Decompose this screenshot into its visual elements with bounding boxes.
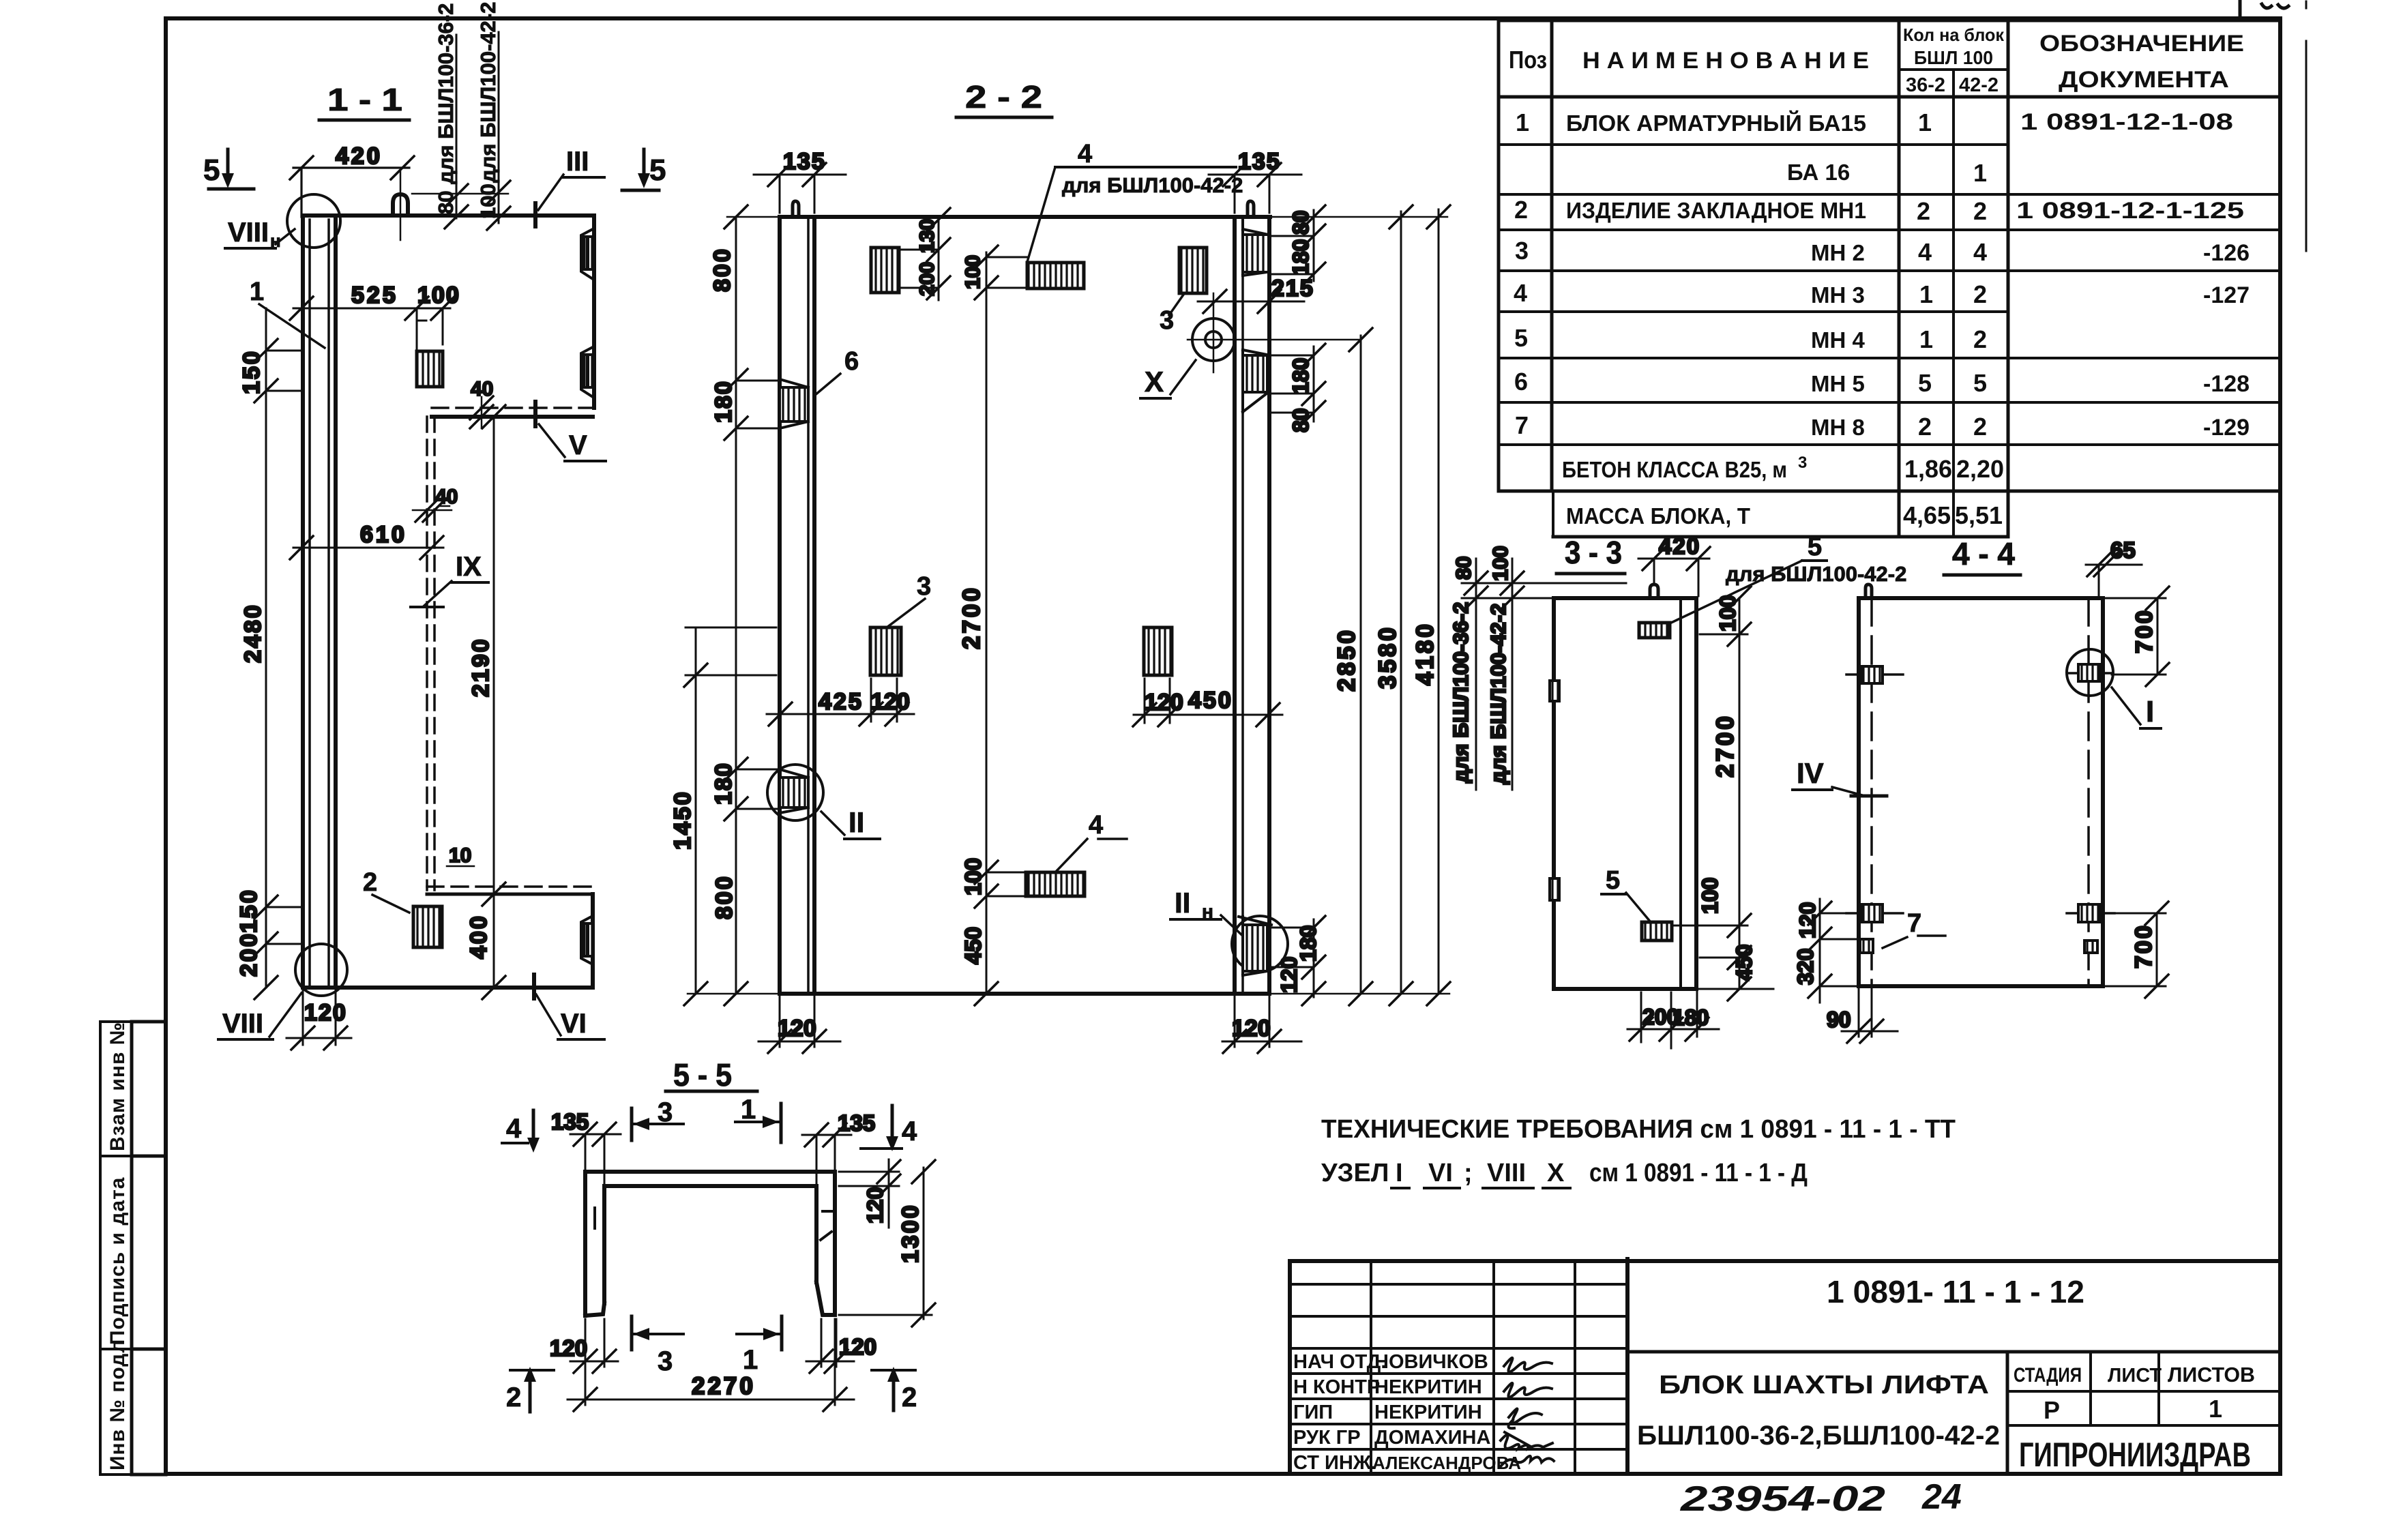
svg-text:Поз: Поз [1509, 46, 1547, 74]
svg-text:135: 135 [783, 149, 826, 175]
svg-text:МН 5: МН 5 [1811, 371, 1865, 396]
svg-text:МН 4: МН 4 [1811, 327, 1865, 353]
svg-text:1: 1 [1918, 108, 1932, 136]
rotated dim line 100 dlya BShL100-42-2 [476, 2, 510, 230]
svg-text:I: I [1396, 1159, 1403, 1187]
cut marker 4 left [502, 1110, 540, 1153]
svg-text:Подпись и дата: Подпись и дата [106, 1177, 129, 1345]
svg-text:80: 80 [434, 191, 458, 214]
svg-text:МН 2: МН 2 [1811, 240, 1865, 265]
label 3 top right [1160, 295, 1183, 335]
svg-text:1 0891- 11 - 1 - 12: 1 0891- 11 - 1 - 12 [1827, 1274, 2084, 1309]
svg-text:1: 1 [2209, 1395, 2222, 1423]
label 4 with note [1027, 140, 1243, 262]
dim 120 450 right [1133, 679, 1282, 726]
svg-text:2: 2 [363, 868, 377, 897]
svg-text:3: 3 [658, 1346, 673, 1376]
clip left tiny [1860, 939, 1873, 953]
svg-text:5: 5 [1514, 324, 1528, 352]
dim 120 bottom 1-1 [286, 990, 351, 1050]
dim 180 120 bottom right [1269, 916, 1325, 1005]
svg-text:IV: IV [1797, 757, 1824, 789]
dim 120 320 left [1793, 899, 1860, 1003]
svg-text:для БШЛ100-36-2: для БШЛ100-36-2 [434, 3, 458, 184]
cut marker 5 right [622, 149, 666, 190]
svg-text:100: 100 [1698, 878, 1722, 914]
label 2 with leader [363, 868, 409, 913]
label 7 [1883, 909, 1945, 948]
svg-text:1300: 1300 [898, 1203, 924, 1263]
svg-text:1: 1 [250, 278, 264, 306]
label 5 top with note [1670, 533, 1906, 623]
dim 10 at bottom step [447, 844, 474, 867]
svg-text:120: 120 [778, 1016, 816, 1041]
svg-text:610: 610 [360, 522, 407, 548]
svg-text:-128: -128 [2203, 371, 2250, 397]
svg-text:-129: -129 [2203, 415, 2250, 441]
svg-text:1: 1 [1973, 159, 1987, 187]
dim 135 right [1209, 149, 1301, 213]
svg-text:120: 120 [1795, 902, 1820, 938]
svg-text:5: 5 [1808, 533, 1822, 561]
svg-text:НЕКРИТИН: НЕКРИТИН [1374, 1376, 1482, 1398]
hatched block mid-right [1144, 627, 1172, 675]
svg-text:425: 425 [819, 689, 864, 715]
svg-text:I: I [2146, 695, 2154, 728]
svg-text:УЗЕЛ: УЗЕЛ [1321, 1159, 1389, 1187]
svg-text:5 - 5: 5 - 5 [673, 1057, 732, 1093]
svg-text:2: 2 [1973, 280, 1987, 308]
label VIII-n [225, 218, 295, 251]
svg-text:III: III [566, 147, 589, 177]
detail circle X with hole [1188, 293, 1361, 372]
svg-text:525: 525 [351, 282, 398, 308]
svg-text:ЛИСТОВ: ЛИСТОВ [2168, 1363, 2255, 1387]
svg-text:420: 420 [336, 143, 383, 169]
label II [821, 806, 880, 839]
bottom dims 200 180 [1627, 990, 1719, 1048]
svg-text:II: II [1175, 887, 1190, 919]
svg-text:ЛИСТ: ЛИСТ [2108, 1365, 2162, 1387]
hidden dashed edges [426, 417, 428, 890]
svg-text:1: 1 [1919, 325, 1933, 353]
channel recess bottom flange [581, 916, 593, 964]
dim 65 [2086, 537, 2142, 598]
dim 135 left [754, 149, 846, 213]
svg-text:4: 4 [1089, 811, 1103, 840]
svg-text:5,51: 5,51 [1955, 501, 2003, 529]
svg-text:2700: 2700 [1712, 713, 1739, 778]
svg-text:БЕТОН КЛАССА В25, м: БЕТОН КЛАССА В25, м [1562, 457, 1787, 482]
signature table rows [1290, 1284, 1627, 1449]
hatched recess bottom right [1239, 917, 1271, 975]
detail circle II-n [1232, 916, 1288, 972]
outer dim 1450 [670, 627, 776, 1005]
svg-text:150: 150 [239, 349, 265, 394]
dim 120 bottom left 2-2 [758, 996, 840, 1053]
label 4 bottom [1056, 811, 1127, 872]
svg-text:36-2: 36-2 [1906, 74, 1945, 96]
label II-n [1170, 887, 1245, 938]
table row lines [1499, 19, 2280, 23]
svg-text:2: 2 [1973, 413, 1987, 441]
svg-text:3: 3 [658, 1097, 673, 1127]
svg-text:3: 3 [917, 572, 931, 601]
hatched block 3b top right [1179, 248, 1207, 293]
hidden center lines [1870, 598, 1873, 986]
dim 700 top right [2105, 587, 2169, 686]
signature table columns [1371, 1261, 1575, 1474]
lifting pin left 2-2 [793, 201, 799, 217]
svg-text:2: 2 [1918, 413, 1932, 441]
svg-text:2: 2 [1973, 325, 1987, 353]
svg-text:4: 4 [902, 1116, 917, 1146]
svg-text:320: 320 [1793, 949, 1818, 985]
dim 525 [290, 282, 450, 320]
dim 120 bottom right 2-2 [1222, 996, 1301, 1053]
leg marks [595, 1208, 834, 1240]
svg-text:ГИП: ГИП [1293, 1402, 1333, 1423]
svg-text:120: 120 [871, 689, 910, 715]
svg-text:СТ ИНЖ.: СТ ИНЖ. [1293, 1452, 1376, 1474]
svg-text:7: 7 [1907, 909, 1921, 938]
svg-text:200: 200 [916, 262, 939, 296]
svg-text:МН 3: МН 3 [1811, 282, 1865, 308]
hatched block top 3-3 [1639, 623, 1670, 638]
dim 180 80 mid right [1269, 344, 1325, 432]
svg-text:5: 5 [1606, 866, 1620, 895]
margin box Подпись и дата [100, 1156, 132, 1349]
svg-text:ДОМАХИНА: ДОМАХИНА [1374, 1427, 1490, 1449]
svg-text:42-2: 42-2 [1959, 74, 1999, 96]
svg-text:Кол на блок: Кол на блок [1903, 25, 2005, 45]
cut marker 1 bottom [737, 1316, 782, 1375]
svg-text:135: 135 [838, 1110, 875, 1136]
label VIII bottom [218, 993, 301, 1039]
svg-text:1450: 1450 [670, 790, 696, 850]
svg-text:4: 4 [1918, 238, 1932, 266]
svg-text:2700: 2700 [958, 585, 985, 649]
detail circle VIII bottom [295, 944, 347, 996]
section 3-3 title [1557, 535, 1625, 574]
dim 120 leg bottom [806, 1319, 876, 1373]
svg-text:135: 135 [1238, 149, 1281, 175]
svg-text:1: 1 [741, 1095, 756, 1125]
channel recess right top [581, 229, 593, 279]
cut marker 3 bottom [632, 1316, 683, 1376]
cut marker 5 left [203, 149, 254, 189]
svg-text:5: 5 [1918, 369, 1932, 397]
svg-text:VIII: VIII [1487, 1159, 1526, 1187]
svg-text:130: 130 [916, 219, 939, 253]
svg-text:МН 8: МН 8 [1811, 415, 1865, 440]
right dim line 3580 [1374, 205, 1413, 1005]
svg-text:4,65: 4,65 [1903, 501, 1951, 529]
svg-text:2480: 2480 [240, 603, 266, 663]
dim 1300 [839, 1160, 935, 1327]
section 5-5 title [666, 1057, 757, 1093]
label V [535, 402, 606, 461]
svg-text:420: 420 [1659, 533, 1700, 559]
svg-text:100: 100 [962, 255, 984, 289]
svg-text:120: 120 [839, 1334, 876, 1359]
svg-text:23954-02: 23954-02 [1680, 1479, 1885, 1519]
label IV [1793, 757, 1887, 796]
svg-text:II: II [849, 806, 864, 838]
label III [535, 147, 604, 226]
label VI [534, 975, 604, 1039]
svg-text:АЛЕКСАНДРОВА: АЛЕКСАНДРОВА [1372, 1453, 1521, 1473]
clip right lower [2067, 904, 2114, 922]
lifting pin right 2-2 [1248, 201, 1254, 217]
svg-text:7: 7 [1515, 411, 1529, 439]
svg-text:-127: -127 [2203, 282, 2250, 308]
hatched block mid-left [870, 627, 901, 675]
svg-text:180: 180 [1296, 926, 1321, 962]
svg-text:215: 215 [1271, 276, 1314, 301]
right dim line 2850 [1333, 328, 1372, 1005]
svg-text:БШЛ 100: БШЛ 100 [1914, 47, 1993, 68]
svg-text:180: 180 [1672, 1005, 1709, 1030]
svg-text:2: 2 [1973, 197, 1987, 225]
dim 40 at step [470, 378, 493, 428]
label I [2112, 687, 2161, 728]
dim 215 [1198, 276, 1314, 313]
svg-text:100: 100 [960, 858, 986, 895]
svg-text:100: 100 [1488, 546, 1512, 581]
svg-text:2: 2 [1514, 196, 1528, 224]
svg-text:700: 700 [2131, 923, 2157, 968]
central vertical dim chain 100 2700 100 450 [958, 246, 1027, 1005]
svg-text:700: 700 [2132, 608, 2157, 653]
cut marker 4 right [861, 1106, 917, 1151]
svg-text:Н КОНТР: Н КОНТР [1293, 1376, 1380, 1398]
svg-text:800: 800 [709, 247, 735, 292]
svg-text:5: 5 [203, 153, 220, 187]
svg-text:200: 200 [236, 932, 262, 977]
svg-text:ОБОЗНАЧЕНИЕ: ОБОЗНАЧЕНИЕ [2039, 31, 2244, 57]
wall outline 1-1 [303, 216, 594, 988]
svg-text:2: 2 [506, 1382, 521, 1412]
outline 4-4 [1859, 598, 2103, 986]
title block outline [1290, 1259, 2280, 1263]
detail circle I with clip [2067, 649, 2113, 696]
margin box Взам инв № [100, 1022, 132, 1156]
svg-text:4: 4 [1078, 140, 1092, 168]
channel outline 5-5 [585, 1172, 835, 1316]
svg-text:X: X [1145, 366, 1164, 398]
svg-text:2270: 2270 [692, 1373, 756, 1400]
svg-text:IX: IX [456, 552, 482, 582]
svg-text:1 - 1: 1 - 1 [327, 82, 402, 117]
svg-text:1 0891-12-1-125: 1 0891-12-1-125 [2016, 198, 2244, 224]
cut marker 2 left [506, 1367, 554, 1412]
signatures squiggles [1501, 1358, 1554, 1466]
hatched block 4a horizontal [1027, 263, 1084, 288]
svg-text:6: 6 [1514, 368, 1528, 396]
svg-text:БЛОК АРМАТУРНЫЙ БА15: БЛОК АРМАТУРНЫЙ БА15 [1566, 110, 1866, 136]
svg-text:10: 10 [449, 844, 471, 867]
svg-text:для БШЛ100-42-2: для БШЛ100-42-2 [476, 2, 500, 183]
svg-text:150: 150 [236, 888, 262, 933]
hatched block bottom 3-3 [1642, 922, 1672, 941]
svg-text:VI: VI [1428, 1159, 1453, 1187]
dim 420 [290, 143, 414, 217]
margin box Инв № подл [100, 1349, 132, 1475]
hatched recess in circle II [780, 769, 808, 813]
svg-text:Инв № подл: Инв № подл [106, 1339, 129, 1470]
svg-text:3 - 3: 3 - 3 [1565, 535, 1622, 570]
svg-text:100: 100 [1715, 595, 1740, 632]
label IX [411, 552, 488, 607]
svg-text:БШЛ100-36-2,БШЛ100-42-2: БШЛ100-36-2,БШЛ100-42-2 [1637, 1421, 2000, 1451]
svg-text:4180: 4180 [1412, 621, 1439, 685]
section 1-1 title [319, 82, 409, 120]
edge clip upper 3-3 [1550, 681, 1559, 701]
svg-text:Р: Р [2044, 1396, 2060, 1424]
svg-text:400: 400 [466, 914, 492, 959]
svg-text:VIII: VIII [228, 218, 269, 248]
svg-text:для БШЛ100-42-2: для БШЛ100-42-2 [1726, 562, 1906, 586]
section 2-2 title [956, 79, 1052, 117]
svg-text:для БШЛ100-42-2: для БШЛ100-42-2 [1062, 173, 1243, 197]
svg-text:ТЕХНИЧЕСКИЕ ТРЕБОВАНИЯ см 1: ТЕХНИЧЕСКИЕ ТРЕБОВАНИЯ см 1 0891 - 11 - … [1321, 1115, 1956, 1144]
svg-text:180: 180 [1288, 239, 1313, 276]
svg-text:180: 180 [1288, 358, 1313, 394]
svg-text:80: 80 [1288, 210, 1313, 235]
dim 100 upper [417, 282, 460, 349]
right dim chain 100 2700 100 450 [1675, 587, 1773, 1001]
clip left lower [1846, 904, 1903, 922]
svg-text:НЕКРИТИН: НЕКРИТИН [1374, 1402, 1482, 1423]
svg-text:450: 450 [1732, 945, 1756, 981]
left vertical dim chain [236, 308, 303, 999]
svg-text:2: 2 [902, 1382, 917, 1412]
dim 425 120 left [767, 679, 914, 726]
cut marker 3 top [632, 1097, 683, 1140]
svg-text:VIII: VIII [222, 1009, 263, 1039]
svg-text:2190: 2190 [468, 637, 494, 697]
svg-text:4: 4 [506, 1114, 522, 1144]
svg-text:450: 450 [1188, 687, 1233, 713]
svg-text:РУК ГР: РУК ГР [1293, 1427, 1361, 1449]
corner mark top right [2240, 1, 2288, 18]
svg-text:СТАДИЯ: СТАДИЯ [2014, 1364, 2082, 1387]
svg-text:120: 120 [1232, 1016, 1271, 1041]
lifting pin 4-4 [1866, 584, 1872, 598]
dim chain 130 200 at block 3a [900, 208, 950, 300]
hatched block 3a [871, 248, 899, 293]
dim 40 at hidden edge [413, 486, 458, 522]
section 4-4 title [1944, 536, 2020, 575]
svg-text:МАССА БЛОКА, Т: МАССА БЛОКА, Т [1566, 503, 1750, 529]
svg-text:ИЗДЕЛИЕ ЗАКЛАДНОЕ МН1: ИЗДЕЛИЕ ЗАКЛАДНОЕ МН1 [1566, 198, 1866, 223]
svg-text:180: 180 [711, 762, 737, 805]
hatched embed block upper 1-1 [417, 351, 443, 387]
top edge extensions [727, 216, 1447, 218]
svg-text:для БШЛ100-36-2: для БШЛ100-36-2 [1449, 602, 1473, 783]
label 3 mid-left [887, 572, 931, 627]
svg-text:100: 100 [476, 183, 500, 219]
channel recess right mid [581, 347, 593, 397]
dim 120 slab [839, 1159, 900, 1228]
svg-text:3: 3 [1798, 454, 1807, 472]
svg-text:см 1 0891 - 11 - 1 - Д: см 1 0891 - 11 - 1 - Д [1589, 1159, 1808, 1187]
svg-text:БЛОК ШАХТЫ ЛИФТА: БЛОК ШАХТЫ ЛИФТА [1659, 1371, 1989, 1400]
label 6 [814, 347, 859, 396]
svg-text:120: 120 [863, 1187, 887, 1224]
label 5 mid [1602, 866, 1651, 922]
svg-text:120: 120 [1277, 957, 1301, 993]
right wall recess top [1243, 219, 1269, 276]
svg-text:X: X [1547, 1159, 1565, 1187]
svg-text:2: 2 [1917, 197, 1930, 225]
left top dims 80 100 [1449, 546, 1626, 790]
lifting loop 1-1 [393, 194, 408, 216]
svg-text:1,86: 1,86 [1904, 455, 1952, 483]
svg-text:НАЧ ОТД.: НАЧ ОТД. [1293, 1351, 1386, 1373]
cut marker 2 right [872, 1367, 917, 1412]
svg-text:2 - 2: 2 - 2 [965, 79, 1042, 115]
lifting loop 3-3 [1650, 584, 1658, 598]
svg-text:180: 180 [711, 380, 737, 423]
right dim line 4180 [1412, 205, 1450, 1005]
title right part lines [1627, 1350, 2280, 1354]
svg-text:ДОКУМЕНТА: ДОКУМЕНТА [2059, 67, 2229, 93]
svg-text:4: 4 [1973, 238, 1987, 266]
svg-text:120: 120 [1145, 690, 1183, 715]
svg-text:НОВИЧКОВ: НОВИЧКОВ [1374, 1351, 1488, 1373]
node numerals underlines [1391, 1187, 1570, 1189]
dim 135 right 5-5 [802, 1110, 875, 1183]
rotated dim line 80 dlya BShL100-36-2 [412, 3, 508, 228]
right wall recess mid [1243, 350, 1267, 412]
svg-text:1: 1 [1919, 280, 1933, 308]
svg-text:4 - 4: 4 - 4 [1952, 536, 2015, 572]
svg-text:1 0891-12-1-08: 1 0891-12-1-08 [2020, 109, 2233, 135]
svg-text:1: 1 [743, 1345, 758, 1375]
hatched block 4b bottom [1026, 872, 1085, 896]
outline 3-3 [1554, 598, 1696, 989]
svg-text:2,20: 2,20 [1956, 455, 2004, 483]
svg-text:5: 5 [649, 153, 666, 187]
dim 80 180 top right [1269, 205, 1325, 286]
svg-text:90: 90 [1827, 1007, 1851, 1032]
svg-text:БА 16: БА 16 [1787, 160, 1850, 185]
edge clip lower 3-3 [1550, 878, 1559, 900]
cut marker 1 top [735, 1095, 781, 1142]
svg-text:24: 24 [1921, 1477, 1962, 1517]
dim chain 2190 400 [466, 405, 505, 999]
svg-text:Взам инв №: Взам инв № [106, 1022, 129, 1151]
svg-text:120: 120 [304, 1000, 347, 1026]
svg-text:6: 6 [844, 347, 859, 376]
label X [1140, 360, 1196, 398]
svg-text:-126: -126 [2203, 240, 2250, 266]
clip left upper [1846, 666, 1903, 683]
dim 420 top [1638, 533, 1710, 596]
dim 700 bottom right [2105, 902, 2168, 998]
wall recess item 6 [780, 379, 808, 428]
dim 120 left leg bottom [550, 1319, 618, 1373]
detail circle II [767, 765, 823, 820]
svg-text:1: 1 [1516, 108, 1529, 136]
bottom edge extensions [688, 993, 1449, 995]
table outer and columns [1499, 20, 2280, 537]
svg-text:120: 120 [550, 1335, 587, 1361]
svg-text:;: ; [1464, 1159, 1473, 1187]
svg-text:80: 80 [1288, 408, 1313, 432]
